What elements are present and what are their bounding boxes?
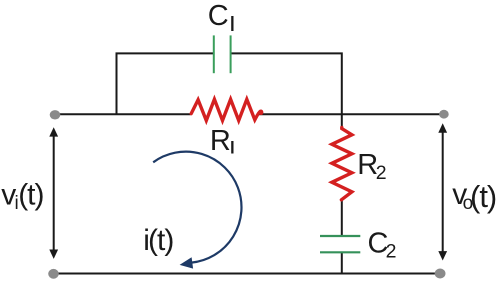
svg-text:(t): (t) xyxy=(470,179,496,214)
svg-text:2: 2 xyxy=(386,241,397,263)
svg-text:(t): (t) xyxy=(18,179,43,212)
svg-text:C: C xyxy=(208,0,229,32)
svg-text:R: R xyxy=(210,125,231,157)
svg-text:(t): (t) xyxy=(148,224,173,257)
svg-text:2: 2 xyxy=(376,162,387,184)
